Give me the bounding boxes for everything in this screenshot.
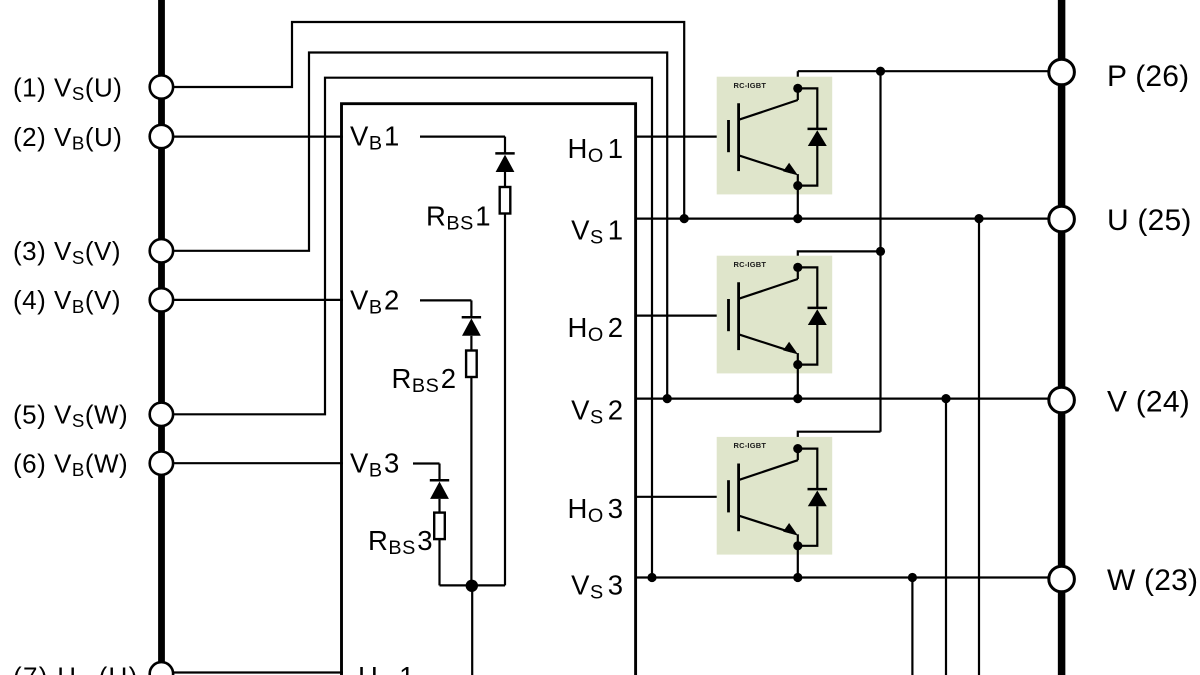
svg-text:P (26): P (26) (1107, 60, 1189, 93)
svg-text:(2) VB​(U): (2) VB​(U) (13, 122, 122, 154)
svg-text:(7) HIN​(U): (7) HIN​(U) (13, 662, 139, 675)
svg-text:U (25): U (25) (1107, 204, 1192, 237)
svg-text:RC-IGBT: RC-IGBT (734, 81, 767, 90)
svg-text:(6) VB​(W): (6) VB​(W) (13, 448, 128, 480)
svg-text:(5) VS​(W): (5) VS​(W) (13, 399, 128, 431)
svg-text:(4) VB​(V): (4) VB​(V) (13, 285, 121, 317)
svg-text:(3) VS​(V): (3) VS​(V) (13, 236, 121, 268)
svg-text:V (24): V (24) (1107, 385, 1190, 418)
svg-text:RC-IGBT: RC-IGBT (734, 441, 767, 450)
svg-text:W (23): W (23) (1107, 564, 1198, 597)
svg-text:(1) VS​(U): (1) VS​(U) (13, 72, 122, 104)
svg-text:RC-IGBT: RC-IGBT (734, 260, 767, 269)
